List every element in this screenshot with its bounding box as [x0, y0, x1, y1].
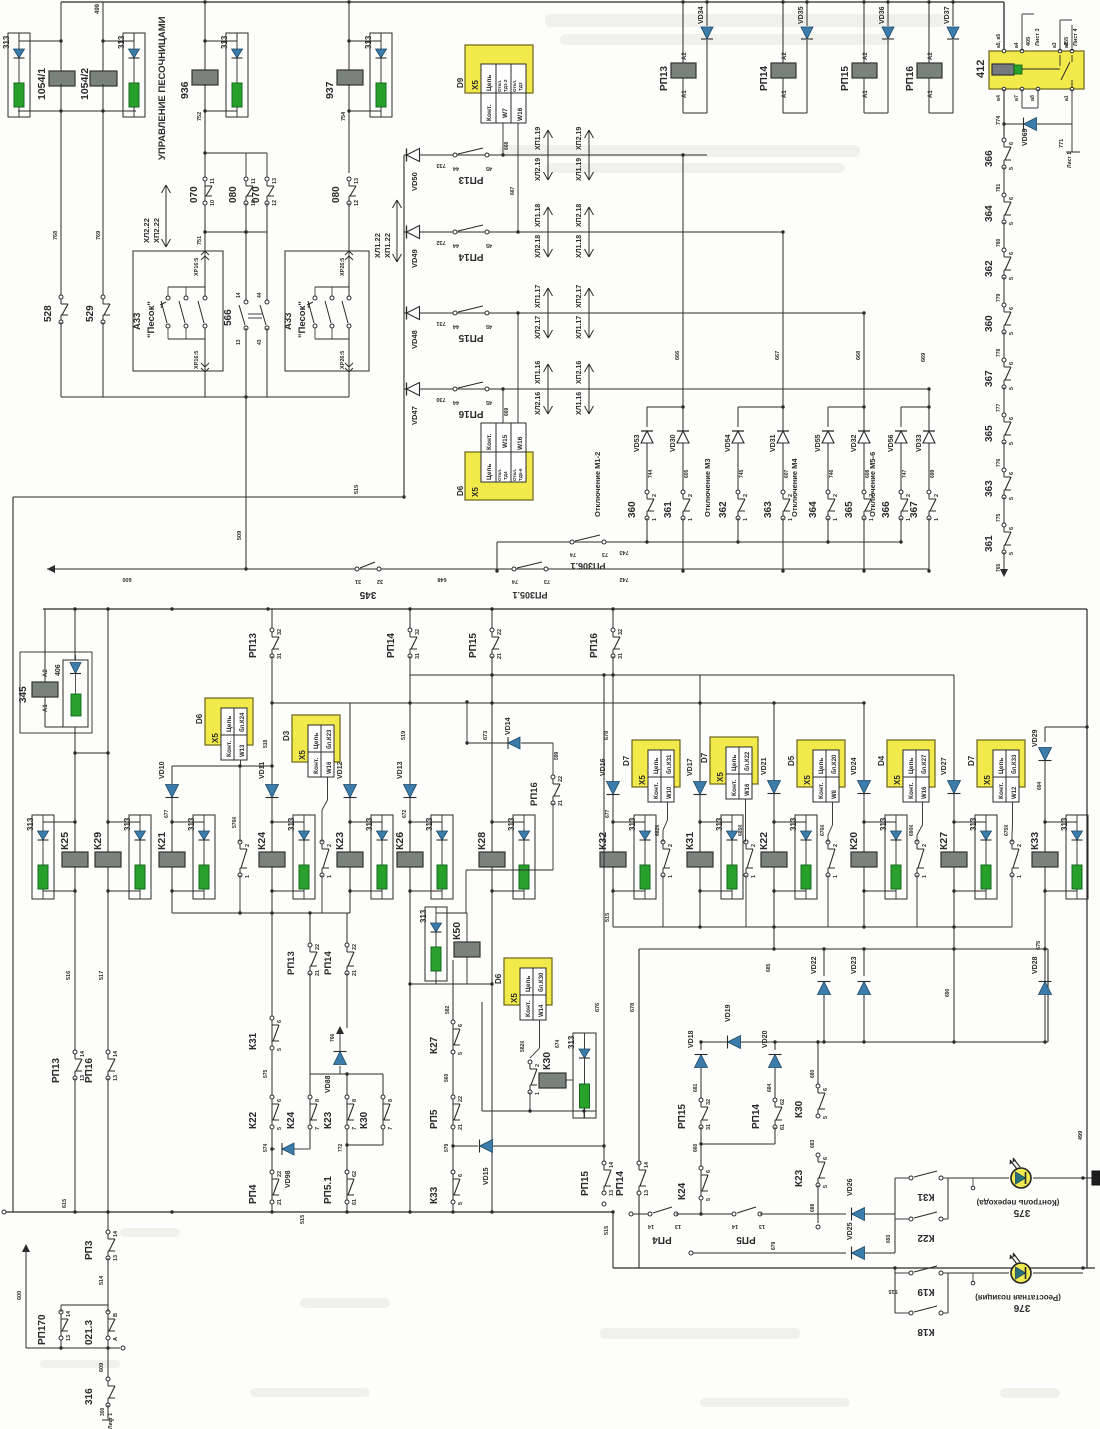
svg-text:699: 699 — [930, 469, 936, 478]
svg-text:2: 2 — [1017, 844, 1023, 847]
resistor-diode block 313 (К33) — [1066, 815, 1088, 899]
diode VD17 — [699, 675, 701, 781]
svg-text:VD12: VD12 — [337, 761, 344, 779]
svg-text:574: 574 — [263, 1143, 269, 1152]
svg-text:Конт.: Конт. — [525, 1001, 532, 1017]
svg-text:Х5: Х5 — [893, 775, 902, 785]
svg-text:К22: К22 — [248, 1111, 259, 1129]
wire right edge 499 — [1086, 609, 1088, 1268]
svg-text:313: 313 — [287, 817, 296, 831]
wire column 453 — [452, 960, 454, 1212]
svg-text:Цепь: Цепь — [998, 758, 1005, 774]
svg-text:VD27: VD27 — [941, 757, 948, 775]
contact 365 — [862, 490, 866, 494]
relay К27 — [941, 852, 967, 867]
svg-text:509: 509 — [237, 531, 243, 540]
contact РП5.1 — [345, 1170, 349, 1174]
svg-text:Цепь: Цепь — [313, 733, 320, 749]
contact К30 (ladder) — [381, 1095, 385, 1099]
svg-text:5: 5 — [1009, 167, 1015, 170]
connector table D6 (бл.К30) — [504, 958, 552, 1005]
svg-text:313: 313 — [425, 817, 434, 831]
svg-text:44: 44 — [257, 292, 263, 298]
svg-text:313: 313 — [26, 817, 35, 831]
svg-text:W16: W16 — [922, 786, 928, 799]
svg-text:768: 768 — [53, 231, 59, 240]
svg-text:VD30: VD30 — [670, 434, 677, 452]
svg-text:бл.К24: бл.К24 — [239, 712, 246, 732]
svg-text:5: 5 — [277, 1048, 283, 1051]
resistor-diode block 313 (К28) — [513, 815, 535, 899]
wire 690 — [953, 927, 955, 1042]
svg-text:VD49: VD49 — [410, 249, 419, 268]
entry/exit arrows ХР16:5 — [201, 251, 205, 255]
svg-text:А1: А1 — [43, 704, 49, 712]
svg-text:2: 2 — [652, 494, 658, 497]
svg-text:609: 609 — [99, 1363, 105, 1372]
relay 1054/1 — [60, 2, 62, 71]
svg-text:677: 677 — [605, 809, 611, 818]
wire 600 line — [47, 568, 929, 570]
svg-text:в7: в7 — [1014, 95, 1020, 101]
contact 361 — [1002, 523, 1006, 527]
arrow pair ХП1.18/ХЛ2.18 — [547, 207, 549, 257]
svg-text:ХП1.18: ХП1.18 — [535, 204, 542, 227]
resistor-diode block 313 (К26) — [431, 815, 453, 899]
svg-text:14: 14 — [80, 1050, 86, 1057]
svg-text:605: 605 — [684, 469, 690, 478]
svg-text:5: 5 — [458, 1052, 464, 1055]
diode VD28 — [1039, 982, 1052, 995]
svg-text:VD20: VD20 — [762, 1030, 769, 1048]
relay К50 — [454, 942, 480, 957]
arrow pair ХП1.17/ХЛ2.17 — [547, 288, 549, 338]
svg-text:ХП1.22: ХП1.22 — [383, 233, 392, 258]
svg-text:VD25: VD25 — [847, 1222, 854, 1240]
svg-text:VD55: VD55 — [815, 434, 822, 452]
svg-text:666: 666 — [675, 351, 681, 360]
svg-text:7: 7 — [315, 1127, 321, 1130]
svg-text:А2: А2 — [863, 52, 869, 60]
svg-text:680: 680 — [810, 1069, 816, 1078]
svg-text:13: 13 — [759, 1223, 765, 1229]
svg-text:690К: 690К — [909, 824, 915, 836]
svg-text:43: 43 — [257, 339, 263, 345]
svg-text:677: 677 — [164, 809, 170, 818]
svg-text:313: 313 — [879, 817, 888, 831]
svg-text:684: 684 — [767, 1083, 773, 1092]
svg-text:Цепь: Цепь — [653, 758, 660, 774]
svg-text:362: 362 — [718, 501, 729, 518]
svg-text:Цепь: Цепь — [908, 758, 915, 774]
resistor-diode block 313 (К50) — [425, 907, 447, 981]
svg-text:ТД5-6: ТД5-6 — [518, 468, 523, 481]
diode VD32 — [863, 407, 865, 431]
svg-text:745: 745 — [739, 469, 745, 478]
svg-text:РП16: РП16 — [529, 782, 540, 806]
wire 765 exit arrow — [1003, 552, 1005, 575]
svg-text:668: 668 — [856, 351, 862, 360]
contacts in A33 right — [315, 286, 349, 288]
diode VD14 — [467, 742, 508, 744]
svg-text:080: 080 — [228, 186, 239, 203]
svg-text:780: 780 — [996, 238, 1002, 247]
resistor-diode block 406 — [63, 660, 88, 727]
unit 412 (yellow block) — [989, 51, 1084, 89]
contact 361 — [681, 490, 685, 494]
contact РП13 (mid) — [271, 609, 273, 628]
diode VD25 — [852, 1247, 865, 1260]
wire 667 D9-W16 to row2 — [517, 123, 519, 232]
svg-text:62: 62 — [352, 1171, 358, 1177]
svg-text:363: 363 — [763, 501, 774, 518]
wire 669 РП16 down — [928, 389, 930, 407]
svg-text:560: 560 — [444, 1073, 450, 1082]
svg-text:К24: К24 — [286, 1111, 297, 1129]
contact 364 — [1002, 193, 1006, 197]
svg-text:К20: К20 — [848, 832, 860, 850]
relay РП14 — [782, 2, 784, 63]
svg-text:Откл.: Откл. — [512, 80, 517, 92]
svg-text:405: 405 — [1026, 37, 1032, 46]
svg-text:VD10: VD10 — [159, 761, 166, 779]
svg-text:14: 14 — [644, 1161, 650, 1168]
diode VD24 — [863, 703, 865, 780]
svg-text:D9: D9 — [456, 77, 465, 88]
svg-text:Конт.: Конт. — [226, 741, 233, 757]
svg-text:W16: W16 — [327, 761, 333, 774]
svg-text:62: 62 — [780, 1099, 786, 1105]
resistor-diode block 313 (936) — [226, 33, 248, 117]
svg-text:690: 690 — [945, 988, 951, 997]
relay К26 — [397, 852, 423, 867]
diode VD56 — [895, 431, 907, 443]
svg-text:13: 13 — [354, 178, 360, 184]
contact К23 (ladder) — [345, 1095, 349, 1099]
svg-text:РП13: РП13 — [286, 951, 297, 975]
svg-text:364: 364 — [984, 205, 995, 222]
svg-text:313: 313 — [715, 817, 724, 831]
contact РП5 (box) — [732, 1212, 736, 1216]
svg-text:а4: а4 — [1014, 42, 1020, 48]
svg-text:14: 14 — [609, 1161, 615, 1168]
wire D6-W16 to row3 — [517, 313, 519, 423]
svg-text:ХЛ1.18: ХЛ1.18 — [576, 235, 583, 258]
wire 676 column — [603, 675, 605, 1163]
arrow pair ХП2.22 / ХЛ2.22 — [165, 185, 167, 247]
svg-text:"Песок": "Песок" — [297, 301, 308, 338]
arrow pair ХП2.16/ХЛ1.16 — [588, 364, 590, 414]
wire 1214 line — [629, 1212, 633, 1216]
diode VD34 loop — [683, 112, 707, 114]
svg-text:W16: W16 — [517, 436, 524, 450]
relay РП15 — [863, 2, 865, 63]
svg-text:5: 5 — [1009, 552, 1015, 555]
resistor-diode block 313 (К27) — [975, 815, 997, 899]
svg-text:К25: К25 — [59, 832, 71, 850]
svg-text:365: 365 — [984, 425, 995, 442]
connector table D6 (бл.К24) — [205, 698, 253, 745]
svg-text:8: 8 — [315, 1099, 321, 1102]
arrow pair ХП2.17/ХЛ1.17 — [588, 288, 590, 338]
svg-text:519: 519 — [401, 731, 407, 740]
resistor-diode block 313 (937) — [370, 33, 392, 117]
svg-text:754: 754 — [341, 111, 347, 121]
svg-text:1: 1 — [869, 518, 875, 521]
svg-text:14: 14 — [113, 1230, 119, 1237]
svg-text:VD53: VD53 — [634, 434, 641, 452]
svg-text:VD22: VD22 — [811, 956, 818, 974]
arrow pair ХП1.19/ХЛ2.19 — [547, 130, 549, 180]
svg-text:РП15: РП15 — [580, 1171, 591, 1196]
column VD18 РП15 К24 — [700, 1042, 702, 1050]
connector table D7 (бл.К31) — [632, 740, 680, 787]
svg-text:660: 660 — [693, 1143, 699, 1152]
svg-text:2: 2 — [751, 844, 757, 847]
svg-text:К23: К23 — [794, 1169, 805, 1187]
svg-text:в8: в8 — [1030, 95, 1036, 101]
svg-text:Отключение М5-6: Отключение М5-6 — [868, 452, 877, 517]
svg-text:РП14: РП14 — [759, 66, 770, 91]
svg-text:ХЛ1.17: ХЛ1.17 — [576, 316, 583, 339]
contact 070 second — [266, 153, 268, 179]
svg-text:772: 772 — [338, 1143, 344, 1152]
svg-text:VD26: VD26 — [847, 1178, 854, 1196]
svg-text:21: 21 — [458, 1124, 464, 1130]
svg-text:РП14: РП14 — [751, 1104, 762, 1129]
wire jog VD55-VD32 — [828, 406, 864, 408]
svg-text:W16: W16 — [745, 783, 751, 796]
svg-text:515: 515 — [604, 1226, 610, 1235]
svg-text:1054/1: 1054/1 — [36, 68, 48, 100]
relay К50 group — [436, 912, 467, 914]
svg-text:31: 31 — [618, 653, 624, 659]
wire 703 horizontal right — [613, 702, 774, 704]
svg-text:5: 5 — [1009, 387, 1015, 390]
wire jumper K25-K29 — [75, 752, 108, 754]
svg-text:021.3: 021.3 — [84, 1320, 95, 1345]
contact РП16 (row) — [453, 387, 457, 391]
svg-text:22: 22 — [277, 1171, 283, 1177]
svg-text:А33: А33 — [132, 313, 143, 330]
wire 771 to Лист 1 — [1071, 89, 1073, 152]
diode VD50 — [404, 154, 406, 156]
diode VD12 — [349, 703, 351, 784]
svg-text:743: 743 — [619, 549, 628, 555]
svg-text:6: 6 — [458, 1024, 464, 1027]
svg-text:D6: D6 — [494, 973, 503, 984]
svg-text:73: 73 — [602, 551, 608, 557]
contact block бл.К33 — [1010, 840, 1014, 844]
svg-text:366: 366 — [984, 150, 995, 167]
svg-text:529: 529 — [85, 305, 96, 322]
svg-text:14: 14 — [66, 1310, 72, 1317]
svg-text:45: 45 — [486, 323, 492, 329]
svg-text:733: 733 — [436, 162, 445, 168]
svg-text:13: 13 — [675, 1223, 681, 1229]
svg-text:К33: К33 — [429, 1186, 440, 1204]
svg-text:РП14: РП14 — [323, 951, 334, 975]
svg-text:936: 936 — [179, 81, 191, 99]
svg-text:777: 777 — [996, 403, 1002, 412]
contact РП13 (row) — [453, 153, 457, 157]
svg-text:6: 6 — [1009, 197, 1015, 200]
svg-text:406: 406 — [55, 664, 62, 676]
svg-text:W16: W16 — [517, 107, 524, 121]
diode VD55 — [822, 431, 834, 443]
svg-text:D3: D3 — [282, 730, 291, 741]
svg-text:61: 61 — [780, 1124, 786, 1130]
contact К19 (parallel) — [909, 1271, 913, 1275]
wire 515 bus middle — [613, 926, 1012, 928]
svg-text:14: 14 — [731, 1223, 738, 1229]
svg-text:РП14: РП14 — [615, 1171, 626, 1196]
svg-text:515: 515 — [888, 1288, 897, 1294]
svg-text:VD29: VD29 — [1032, 729, 1039, 747]
svg-text:74: 74 — [569, 551, 576, 557]
relay К20 — [851, 852, 877, 867]
svg-text:499: 499 — [95, 3, 101, 14]
svg-text:W8: W8 — [832, 789, 838, 799]
wire jumper 1144 — [701, 1143, 775, 1145]
svg-text:6: 6 — [823, 1088, 829, 1091]
svg-text:VD69: VD69 — [1022, 128, 1029, 146]
wire to LED 375 — [948, 1177, 1009, 1179]
svg-text:6: 6 — [706, 1170, 712, 1173]
wire 727 К33 feed — [1045, 726, 1087, 728]
wire 515 bus upper — [13, 496, 404, 498]
svg-text:VD15: VD15 — [483, 1167, 490, 1185]
svg-text:13: 13 — [236, 339, 242, 345]
svg-text:(Контроль перехода): (Контроль перехода) — [976, 1198, 1059, 1207]
svg-text:599: 599 — [554, 751, 560, 760]
svg-text:РП5.1: РП5.1 — [323, 1176, 334, 1204]
wire 703 horizontal — [272, 702, 613, 704]
contact РП305.1 — [512, 567, 516, 571]
svg-text:К18: К18 — [917, 1326, 935, 1337]
svg-text:21: 21 — [315, 970, 321, 976]
svg-text:бл.К33: бл.К33 — [1011, 754, 1018, 774]
svg-text:32: 32 — [706, 1099, 712, 1105]
contact РП3 — [107, 1212, 109, 1230]
contact К33 (ladder) — [451, 1170, 455, 1174]
svg-text:22: 22 — [497, 629, 503, 635]
connector table D7 (бл.К33) — [977, 740, 1025, 787]
wire 678 vertical К30 — [481, 1002, 483, 1111]
svg-text:2: 2 — [934, 494, 940, 497]
svg-text:ХП2.16: ХП2.16 — [576, 361, 583, 384]
svg-text:РП16: РП16 — [84, 1058, 95, 1083]
wire К50 bottom rail — [410, 983, 492, 985]
diode VD53 — [641, 431, 653, 443]
svg-text:313: 313 — [567, 1035, 576, 1049]
wire collector sanders — [61, 396, 349, 398]
box lower outline — [639, 948, 1048, 950]
resistor-diode block 313 (К24) — [293, 815, 315, 899]
svg-text:Х5: Х5 — [471, 487, 480, 497]
svg-text:W14: W14 — [539, 1004, 545, 1017]
svg-text:Лист 1: Лист 1 — [108, 1413, 114, 1429]
svg-text:751: 751 — [197, 236, 203, 245]
svg-text:6: 6 — [1009, 362, 1015, 365]
wire ladder column К30c — [382, 1074, 384, 1145]
wire 1348 horizontal — [26, 1347, 120, 1349]
svg-text:1: 1 — [668, 875, 674, 878]
svg-text:2: 2 — [668, 844, 674, 847]
wire ladder column К23 — [346, 913, 348, 945]
svg-text:313: 313 — [2, 35, 11, 49]
svg-text:Лист 1: Лист 1 — [1067, 152, 1073, 168]
svg-text:516: 516 — [66, 971, 72, 980]
contact К31 (parallel) — [909, 1176, 913, 1180]
svg-text:1: 1 — [788, 518, 794, 521]
svg-text:1: 1 — [934, 518, 940, 521]
svg-text:515: 515 — [605, 913, 611, 922]
svg-text:681: 681 — [693, 1083, 699, 1092]
junction row2-РП14 — [781, 230, 784, 233]
connector table D9 — [465, 45, 533, 93]
contact 363 — [1002, 468, 1006, 472]
svg-text:778: 778 — [996, 348, 1002, 357]
svg-text:12: 12 — [272, 200, 278, 206]
svg-text:771: 771 — [1059, 139, 1065, 148]
entry/exit arrows ХР26:5 — [345, 251, 349, 255]
svg-text:РП13: РП13 — [51, 1058, 62, 1083]
LED lamp 375 — [1011, 1168, 1031, 1188]
svg-text:ХР16:5: ХР16:5 — [194, 258, 200, 276]
svg-text:6: 6 — [1009, 527, 1015, 530]
svg-text:22: 22 — [458, 1096, 464, 1102]
svg-text:Отключение М3: Отключение М3 — [703, 458, 712, 517]
svg-text:528: 528 — [43, 305, 54, 322]
svg-text:579: 579 — [444, 1143, 450, 1152]
svg-text:515: 515 — [300, 1215, 306, 1224]
svg-text:ХП1.17: ХП1.17 — [535, 285, 542, 308]
contact РП16 (mid) — [612, 609, 614, 628]
svg-text:363: 363 — [984, 480, 995, 497]
svg-text:5: 5 — [823, 1116, 829, 1119]
diode VD30 — [682, 407, 684, 431]
contact 360 — [645, 490, 649, 494]
wire 666 РП13 down — [682, 155, 684, 407]
contact block бл.К30 — [528, 1060, 532, 1064]
diode VD13 — [409, 656, 411, 784]
svg-text:РП15: РП15 — [468, 633, 479, 658]
svg-text:VD13: VD13 — [397, 761, 404, 779]
contact РП14 (box left edge) — [637, 1161, 641, 1165]
svg-text:РП15: РП15 — [458, 332, 483, 343]
svg-text:14: 14 — [647, 1223, 654, 1229]
svg-text:45: 45 — [486, 165, 492, 171]
svg-text:Конт.: Конт. — [908, 783, 915, 799]
contacts in A33 left — [168, 286, 205, 288]
contact РП14 (box2) — [773, 1098, 777, 1102]
svg-text:Х5: Х5 — [716, 772, 725, 782]
resistor-diode block 313 (К25) — [32, 815, 54, 899]
svg-text:VD34: VD34 — [698, 6, 705, 24]
svg-text:360: 360 — [984, 315, 995, 332]
svg-text:1: 1 — [833, 875, 839, 878]
svg-text:ХЛ2.19: ХЛ2.19 — [535, 158, 542, 181]
contact РП4 — [270, 1170, 274, 1174]
relay К28 — [479, 852, 505, 867]
svg-text:А2: А2 — [928, 52, 934, 60]
svg-text:316: 316 — [84, 1388, 95, 1405]
svg-text:5: 5 — [1009, 332, 1015, 335]
wire 679 line — [689, 1251, 693, 1255]
contact РП16 (lower left) — [106, 1050, 110, 1054]
wire 667 РП14 down — [782, 232, 784, 407]
